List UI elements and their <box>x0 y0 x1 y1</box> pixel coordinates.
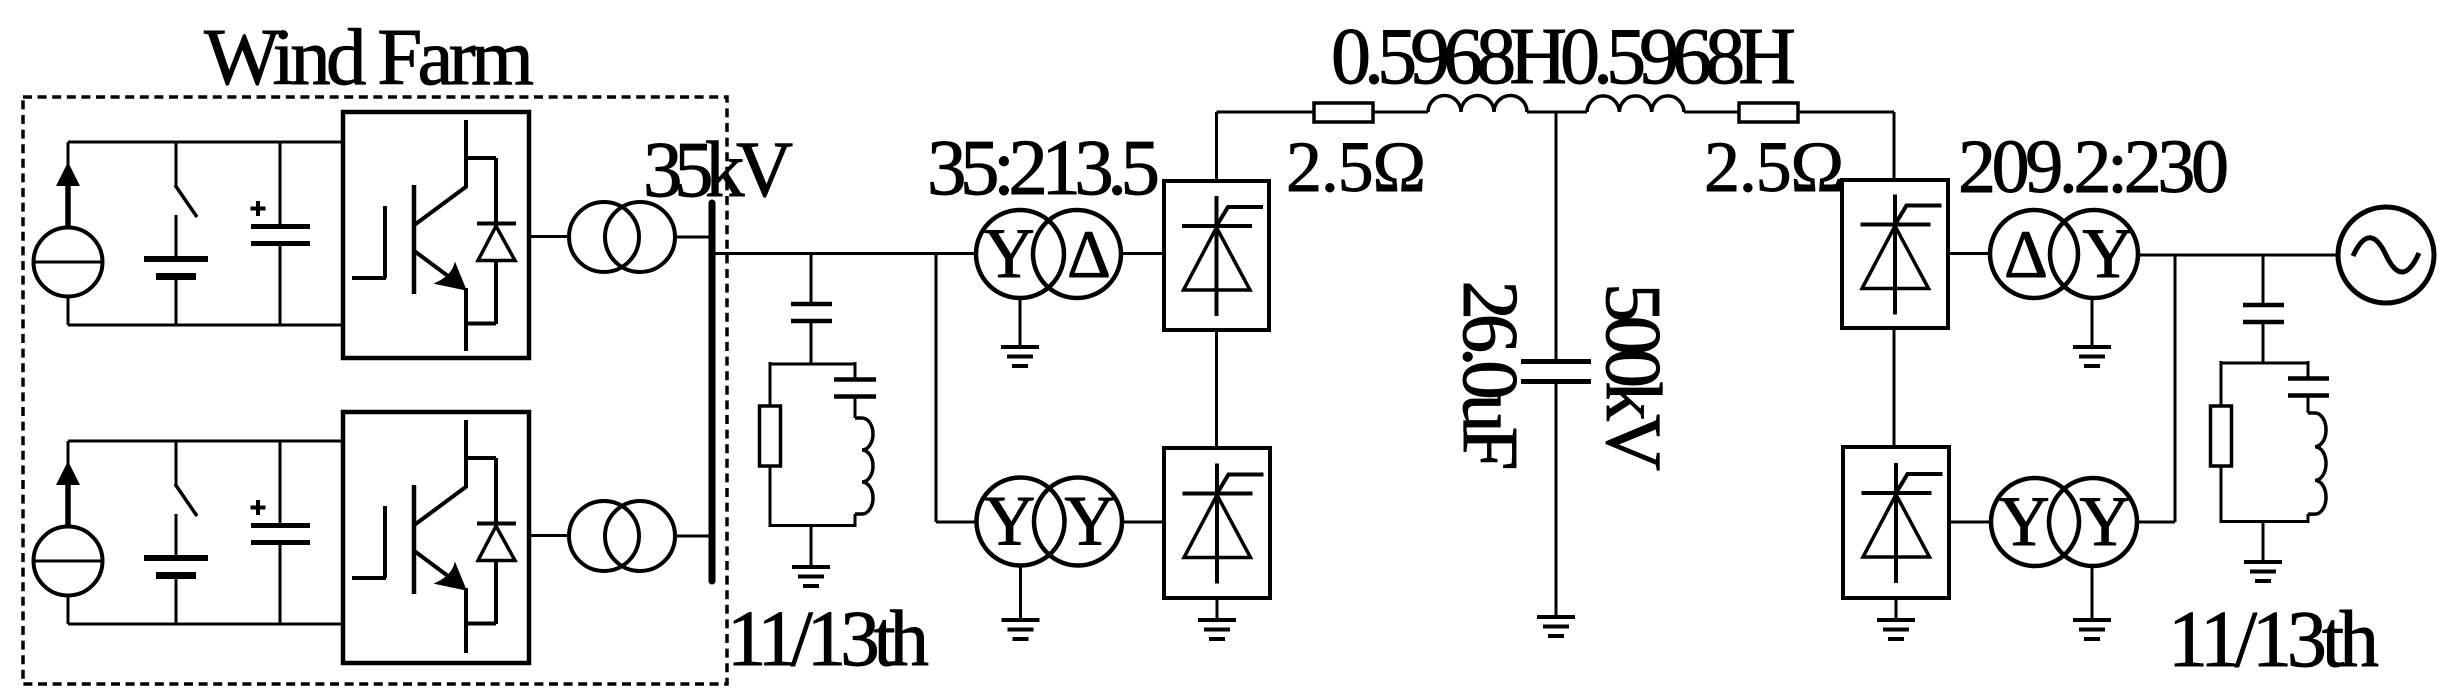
current source I2 (wind turbine) <box>34 527 103 596</box>
ground (Tr3 star point) <box>2073 298 2111 366</box>
ground (DC capacitor) <box>1537 617 1575 636</box>
svg-text:2.5Ω: 2.5Ω <box>1704 127 1844 207</box>
wire filter F1 cap to coil <box>854 398 857 418</box>
converter VSC2 box <box>343 412 529 663</box>
transformer T2 (two windings) <box>569 501 675 571</box>
svg-text:11/13th: 11/13th <box>727 596 929 683</box>
wire filter F2 loop bottom bar <box>2221 520 2308 523</box>
wire Tr3 to AC grid <box>2138 254 2338 257</box>
svg-text:35:213.5: 35:213.5 <box>927 125 1160 212</box>
wire DC capacitor lower lead <box>1555 384 1558 616</box>
current source I2 arrow <box>56 441 80 528</box>
filter F2 series capacitor <box>2243 305 2284 322</box>
wire Tr2 to rectifier valve 2 <box>1122 521 1164 524</box>
plus polarity mark cell 1 <box>251 201 266 216</box>
ground (Tr2 star point) <box>1002 566 1040 640</box>
wire rectifier valve 1 to DC line <box>1215 112 1218 181</box>
converter VSC2 freewheel diode <box>477 458 516 624</box>
svg-text:Y: Y <box>983 215 1034 293</box>
wire DC capacitor lead <box>1555 112 1558 360</box>
wire filter F1 coil lower leg <box>854 514 857 527</box>
wire filter F2 resistor lower leg <box>2220 466 2223 523</box>
wire VSC2 to transformer T2 <box>529 534 570 537</box>
wire bottom rail cell 1 <box>68 324 343 327</box>
wire filter F2 cap to coil <box>2307 397 2310 413</box>
transformer T1 (two windings) <box>569 202 675 272</box>
35kV bus bar <box>709 203 716 581</box>
filter F1 resistor <box>760 406 781 466</box>
svg-text:Y: Y <box>984 483 1035 561</box>
svg-text:35kV: 35kV <box>643 127 793 214</box>
converter VSC1 freewheel diode <box>477 158 516 324</box>
svg-text:0.5968H0.5968H: 0.5968H0.5968H <box>1331 13 1796 101</box>
battery B1 <box>144 215 208 325</box>
switch S1 <box>175 142 197 217</box>
svg-text:Y: Y <box>1064 483 1115 561</box>
svg-text:Wind Farm: Wind Farm <box>204 12 534 102</box>
filter F1 series capacitor <box>791 304 832 321</box>
transformer Tr1 (Y-Δ) circles <box>976 210 1121 298</box>
wire VSC1 to transformer T1 <box>529 235 570 238</box>
wire filter F1 cap to loop <box>810 323 813 364</box>
svg-text:Δ: Δ <box>2004 216 2048 292</box>
ground (Tr1 star point) <box>1001 298 1039 366</box>
wire filter F1 left leg <box>769 362 772 406</box>
current source I1 (wind turbine) <box>34 228 103 297</box>
ground (Tr4 star point) <box>2073 566 2111 639</box>
wire 35kV bus to transformer Tr1 <box>712 252 976 255</box>
svg-text:Y: Y <box>2079 483 2130 561</box>
wire filter F1 series lead <box>810 254 813 303</box>
wire filter F2 loop top bar <box>2221 362 2308 365</box>
wire transformer T1 to 35kV bus <box>675 236 709 239</box>
svg-text:11/13th: 11/13th <box>2168 596 2379 684</box>
wire filter F2 right leg <box>2307 361 2310 377</box>
filter F2 tuning capacitor <box>2288 379 2329 396</box>
wire filter F2 left leg <box>2220 361 2223 406</box>
filter F1 tuning capacitor <box>834 380 876 397</box>
wire top rail cell 1 <box>68 141 343 144</box>
rectifier valve 2 (thyristor bridge) <box>1164 448 1270 598</box>
plus polarity mark cell 2 <box>251 500 266 515</box>
transformer Tr3 (Δ-Y) circles <box>1990 210 2138 298</box>
battery B2 <box>144 514 208 624</box>
filter F2 resistor <box>2211 406 2232 466</box>
ground (rectifier valve 2) <box>1198 598 1236 639</box>
wire DC line segment C <box>1527 111 1587 114</box>
wire junction to transformer Tr2 <box>936 521 978 524</box>
svg-text:209.2:230: 209.2:230 <box>1958 125 2229 209</box>
rectifier valve 1 (thyristor bridge) <box>1164 181 1269 330</box>
ground (left filter) <box>792 525 830 586</box>
svg-text:Y: Y <box>1998 483 2049 561</box>
wind farm boundary (dashed box) <box>23 97 727 684</box>
wire DC line segment E <box>1798 111 1894 114</box>
capacitor Cdc1 <box>251 142 310 325</box>
converter VSC1 IGBT <box>352 120 496 351</box>
switch S2 <box>175 441 197 516</box>
wire filter F1 loop bottom bar <box>770 524 855 527</box>
wire between rectifier valves <box>1215 330 1218 448</box>
transformer Tr4 (Y-Y) circles <box>1991 478 2137 566</box>
wire inverter valve 1 to Tr3 <box>1948 252 1990 255</box>
wire filter F1 right leg <box>854 362 857 378</box>
wire transformer T2 to 35kV bus <box>675 535 709 538</box>
wire inverter valve 2 to Tr4 <box>1949 521 1991 524</box>
transformer Tr2 (Y-Y) circles <box>977 478 1123 566</box>
wire DC line drop to inverter <box>1893 112 1896 180</box>
wire filter F1 resistor lower leg <box>769 466 772 527</box>
AC grid source G1 <box>2338 207 2434 303</box>
wire filter F2 cap to loop <box>2262 324 2265 363</box>
converter VSC2 IGBT <box>352 420 496 653</box>
ground (inverter valve 2) <box>1877 598 1915 639</box>
wire junction drop right <box>2174 255 2177 522</box>
resistor Rdc1 2.5Ω <box>1314 103 1373 122</box>
svg-text:Δ: Δ <box>1067 216 1111 292</box>
filter F2 inductor coil <box>2308 413 2326 514</box>
inverter valve 2 (thyristor bridge) <box>1843 447 1949 598</box>
svg-text:26.0uF: 26.0uF <box>1446 281 1533 471</box>
inductor Ldc1 0.5968H <box>1428 96 1527 113</box>
converter VSC1 box <box>343 112 529 358</box>
wire DC line segment A <box>1217 111 1315 114</box>
svg-text:2.5Ω: 2.5Ω <box>1286 127 1426 207</box>
resistor Rdc2 2.5Ω <box>1739 103 1798 122</box>
ground (right filter) <box>2244 521 2282 581</box>
wire DC line segment D <box>1684 111 1739 114</box>
wire filter F2 coil lower leg <box>2307 514 2310 523</box>
svg-text:500kV: 500kV <box>1589 283 1676 471</box>
wire between inverter valves <box>1893 328 1896 447</box>
wire filter F2 series lead <box>2262 255 2265 303</box>
wire Tr1 to rectifier valve 1 <box>1121 252 1164 255</box>
capacitor Cdc2 <box>251 441 310 624</box>
wire source 1 bottom lead <box>67 296 70 325</box>
filter F1 inductor coil <box>855 418 873 514</box>
wire junction drop to Tr2 <box>935 254 938 523</box>
svg-text:Y: Y <box>2082 215 2133 293</box>
wire top rail cell 2 <box>68 440 343 443</box>
inductor Ldc2 0.5968H <box>1587 96 1684 112</box>
wire bottom rail cell 2 <box>68 623 343 626</box>
wire Tr4 to junction <box>2137 521 2175 524</box>
wire filter F1 loop top bar <box>770 363 855 366</box>
inverter valve 1 (thyristor bridge) <box>1842 180 1948 328</box>
wire source 2 bottom lead <box>67 595 70 624</box>
wire DC line segment B <box>1373 111 1428 114</box>
current source I1 arrow <box>56 142 80 229</box>
capacitor Cdc 26.0uF <box>1521 362 1591 382</box>
